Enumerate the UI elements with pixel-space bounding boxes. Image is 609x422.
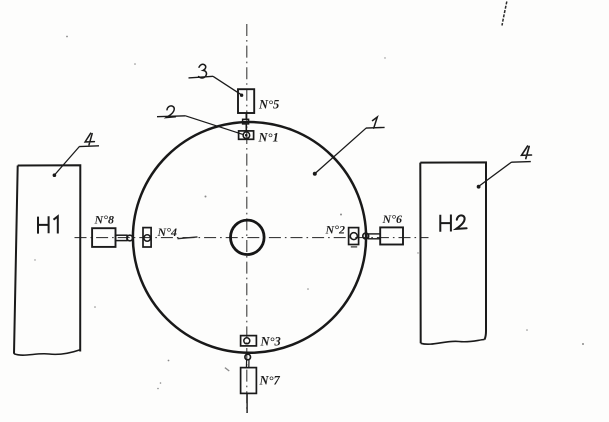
label 4 left leader: [55, 147, 80, 176]
No8 plunger: [116, 235, 128, 240]
No3 roller: [244, 338, 250, 344]
label 4 right digit: [522, 146, 532, 159]
label 4 left leader dot: [53, 173, 57, 177]
label 2 underline: [157, 115, 186, 118]
part 1: large circle: [133, 122, 366, 353]
svg-text:N°1: N°1: [258, 131, 279, 145]
leader dot of label 2: [245, 134, 248, 137]
indicator No1 body: [239, 131, 254, 139]
svg-text:N°4: N°4: [157, 225, 177, 239]
label 2 leader: [186, 116, 244, 135]
No2 roller: [350, 233, 357, 240]
No2 lower tick: [351, 246, 357, 248]
svg-text:N°3: N°3: [260, 335, 281, 349]
scan speckles: [34, 36, 584, 390]
centerline segment right of N4: [178, 237, 198, 239]
indicator No2 body: [349, 228, 359, 245]
indicator No7 body: [241, 368, 257, 394]
No4 roller: [144, 235, 151, 242]
label 1 leader: [315, 128, 366, 173]
H2 letter H: [440, 215, 451, 232]
H2 digit 2: [456, 215, 467, 229]
label 4 right leader dot: [477, 185, 481, 189]
No1 roller: [243, 132, 250, 139]
headstock H2 break line: [421, 340, 485, 345]
coupling to No1 stem: [245, 124, 247, 131]
No5 coupling: [243, 119, 249, 124]
label 3 digit: [199, 64, 207, 78]
No6 plunger: [369, 234, 381, 239]
label 4 right leader: [479, 162, 512, 186]
No7 lower stem: [246, 393, 248, 413]
label 3 leader: [213, 76, 241, 94]
leader dot of label 3: [240, 94, 243, 97]
svg-text:N°8: N°8: [94, 213, 114, 227]
svg-text:N°5: N°5: [258, 98, 279, 112]
No7 stem: [246, 360, 249, 368]
No6 ball tip: [363, 233, 369, 239]
indicator No5 body: [238, 89, 254, 113]
No7 ball contact: [245, 354, 251, 360]
No5 stem: [245, 113, 247, 119]
svg-text:N°2: N°2: [325, 223, 345, 237]
indicator No6 body: [380, 227, 403, 244]
label 4 left digit: [85, 133, 94, 145]
indicator No4 body: [143, 228, 151, 247]
headstock H2 outline: [420, 162, 486, 343]
svg-text:N°7: N°7: [259, 374, 281, 388]
center hole: [231, 220, 265, 254]
stray pen slash top right: [502, 2, 507, 26]
headstock H1 outline: [14, 165, 80, 353]
H1 letter H: [38, 216, 49, 233]
No8 tip ball: [127, 235, 133, 241]
H1 digit 1: [54, 216, 58, 233]
label 1 digit: [373, 117, 378, 128]
indicator No3 body: [241, 336, 257, 346]
label 4 right underline: [511, 161, 530, 164]
headstock H1 break line: [14, 350, 80, 355]
label 4 left underline: [79, 145, 99, 148]
label 2 digit: [166, 106, 175, 118]
svg-text:N°6: N°6: [382, 212, 402, 226]
vertical centerline: [246, 24, 248, 413]
label 1 leader dot: [313, 172, 317, 176]
label 3 underline: [189, 76, 214, 78]
label 1 underline: [366, 126, 385, 129]
indicator No8 body: [92, 228, 115, 247]
horizontal centerline: [75, 237, 429, 239]
